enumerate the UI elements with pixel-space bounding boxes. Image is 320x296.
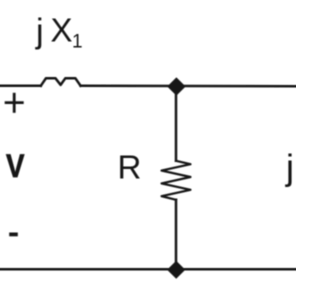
wire top-right segment — [81, 85, 296, 88]
wire resistor bottom lead — [175, 200, 178, 270]
inductor L1 (jX1) — [41, 78, 81, 86]
label + source polarity — [6, 94, 22, 111]
wire resistor top lead — [175, 87, 178, 161]
resistor R zigzag — [162, 161, 191, 200]
node A top junction — [167, 77, 185, 95]
svg-text:X: X — [51, 12, 73, 49]
svg-text:R: R — [118, 148, 142, 185]
svg-text:j: j — [285, 147, 294, 188]
wire bottom rail — [0, 268, 296, 271]
wire top-left segment — [0, 85, 41, 88]
node B bottom junction — [167, 261, 185, 279]
svg-text:V: V — [6, 149, 25, 184]
svg-text:1: 1 — [72, 31, 83, 52]
svg-text:j: j — [35, 12, 44, 50]
label - source polarity — [9, 233, 18, 237]
